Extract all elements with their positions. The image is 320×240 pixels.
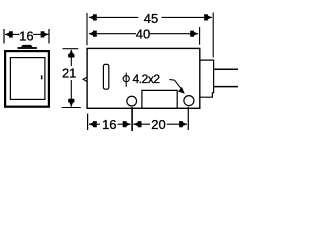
callout leader arrowhead (178, 87, 185, 94)
dim 20 arrow right (179, 121, 187, 127)
dim 45 arrow right (204, 14, 212, 20)
dim 16 bottom line left segment (89, 123, 100, 125)
dim 16 arrow left (5, 31, 13, 37)
dim 40 arrow left (89, 31, 97, 37)
dim 21 top extension line (63, 48, 79, 50)
dim 45 arrow left (89, 14, 97, 20)
indicator dash on right side (41, 75, 43, 79)
dim 20 line right segment (167, 123, 187, 125)
hole right circle (184, 96, 194, 106)
dim 21 line upper segment (70, 50, 72, 66)
dim 21 arrow up (68, 49, 74, 57)
callout leader line (169, 79, 181, 88)
dim 45 extension line right (212, 13, 214, 58)
dim 40 arrow right (190, 31, 198, 37)
side body outline (87, 48, 200, 108)
dim 21 bottom extension line (62, 107, 81, 109)
svg-text:16: 16 (102, 117, 116, 132)
hole callout diameter symbol (123, 73, 129, 87)
svg-text:21: 21 (62, 66, 76, 81)
dim 45 line left segment (89, 16, 138, 18)
cable top edge (214, 68, 238, 70)
dim 16 bottom line right segment (118, 123, 131, 125)
bottom dim extension line under body left edge (87, 114, 89, 130)
lens slot (103, 64, 108, 89)
dim 21 line lower segment (70, 80, 72, 107)
dim 20 line left segment (133, 123, 150, 125)
dim 16 arrow right (41, 31, 49, 37)
dim 20 arrow left (133, 121, 141, 127)
svg-text:20: 20 (151, 117, 165, 132)
svg-text:45: 45 (144, 11, 158, 26)
dim 16 (front width) extension line right (48, 29, 50, 44)
dim 40 extension line right (199, 27, 201, 45)
dim 45 line right segment (162, 16, 213, 18)
shared left extension line (45/40) (86, 13, 88, 45)
hole left circle (127, 96, 137, 106)
top bump upper tier (21, 45, 33, 47)
dim 21 arrow down (68, 99, 74, 107)
mounting notch rectangle (142, 90, 177, 108)
dim 40 line right segment (150, 33, 198, 35)
dim 16 bottom arrow right (123, 121, 131, 127)
top bump lower tier (18, 47, 37, 49)
bottom dim extension line under left hole (131, 107, 133, 131)
sensor front body outline (5, 51, 49, 107)
dim 16 line left segment (5, 33, 20, 35)
optical axis mark on left face (83, 77, 87, 81)
svg-text:40: 40 (136, 26, 150, 41)
dim 40 line left segment (89, 33, 136, 35)
bottom dim extension line under right hole (187, 107, 189, 130)
dim 16 bottom arrow left (89, 121, 97, 127)
front inner bezel rect (10, 58, 45, 100)
cable bottom edge (214, 86, 238, 88)
cable gland outline (200, 60, 214, 97)
dim 16 line right segment (33, 33, 49, 35)
svg-text:4.2x2: 4.2x2 (133, 72, 161, 86)
dim 16 (front width) extension line left (3, 29, 5, 44)
svg-text:16: 16 (19, 29, 33, 44)
